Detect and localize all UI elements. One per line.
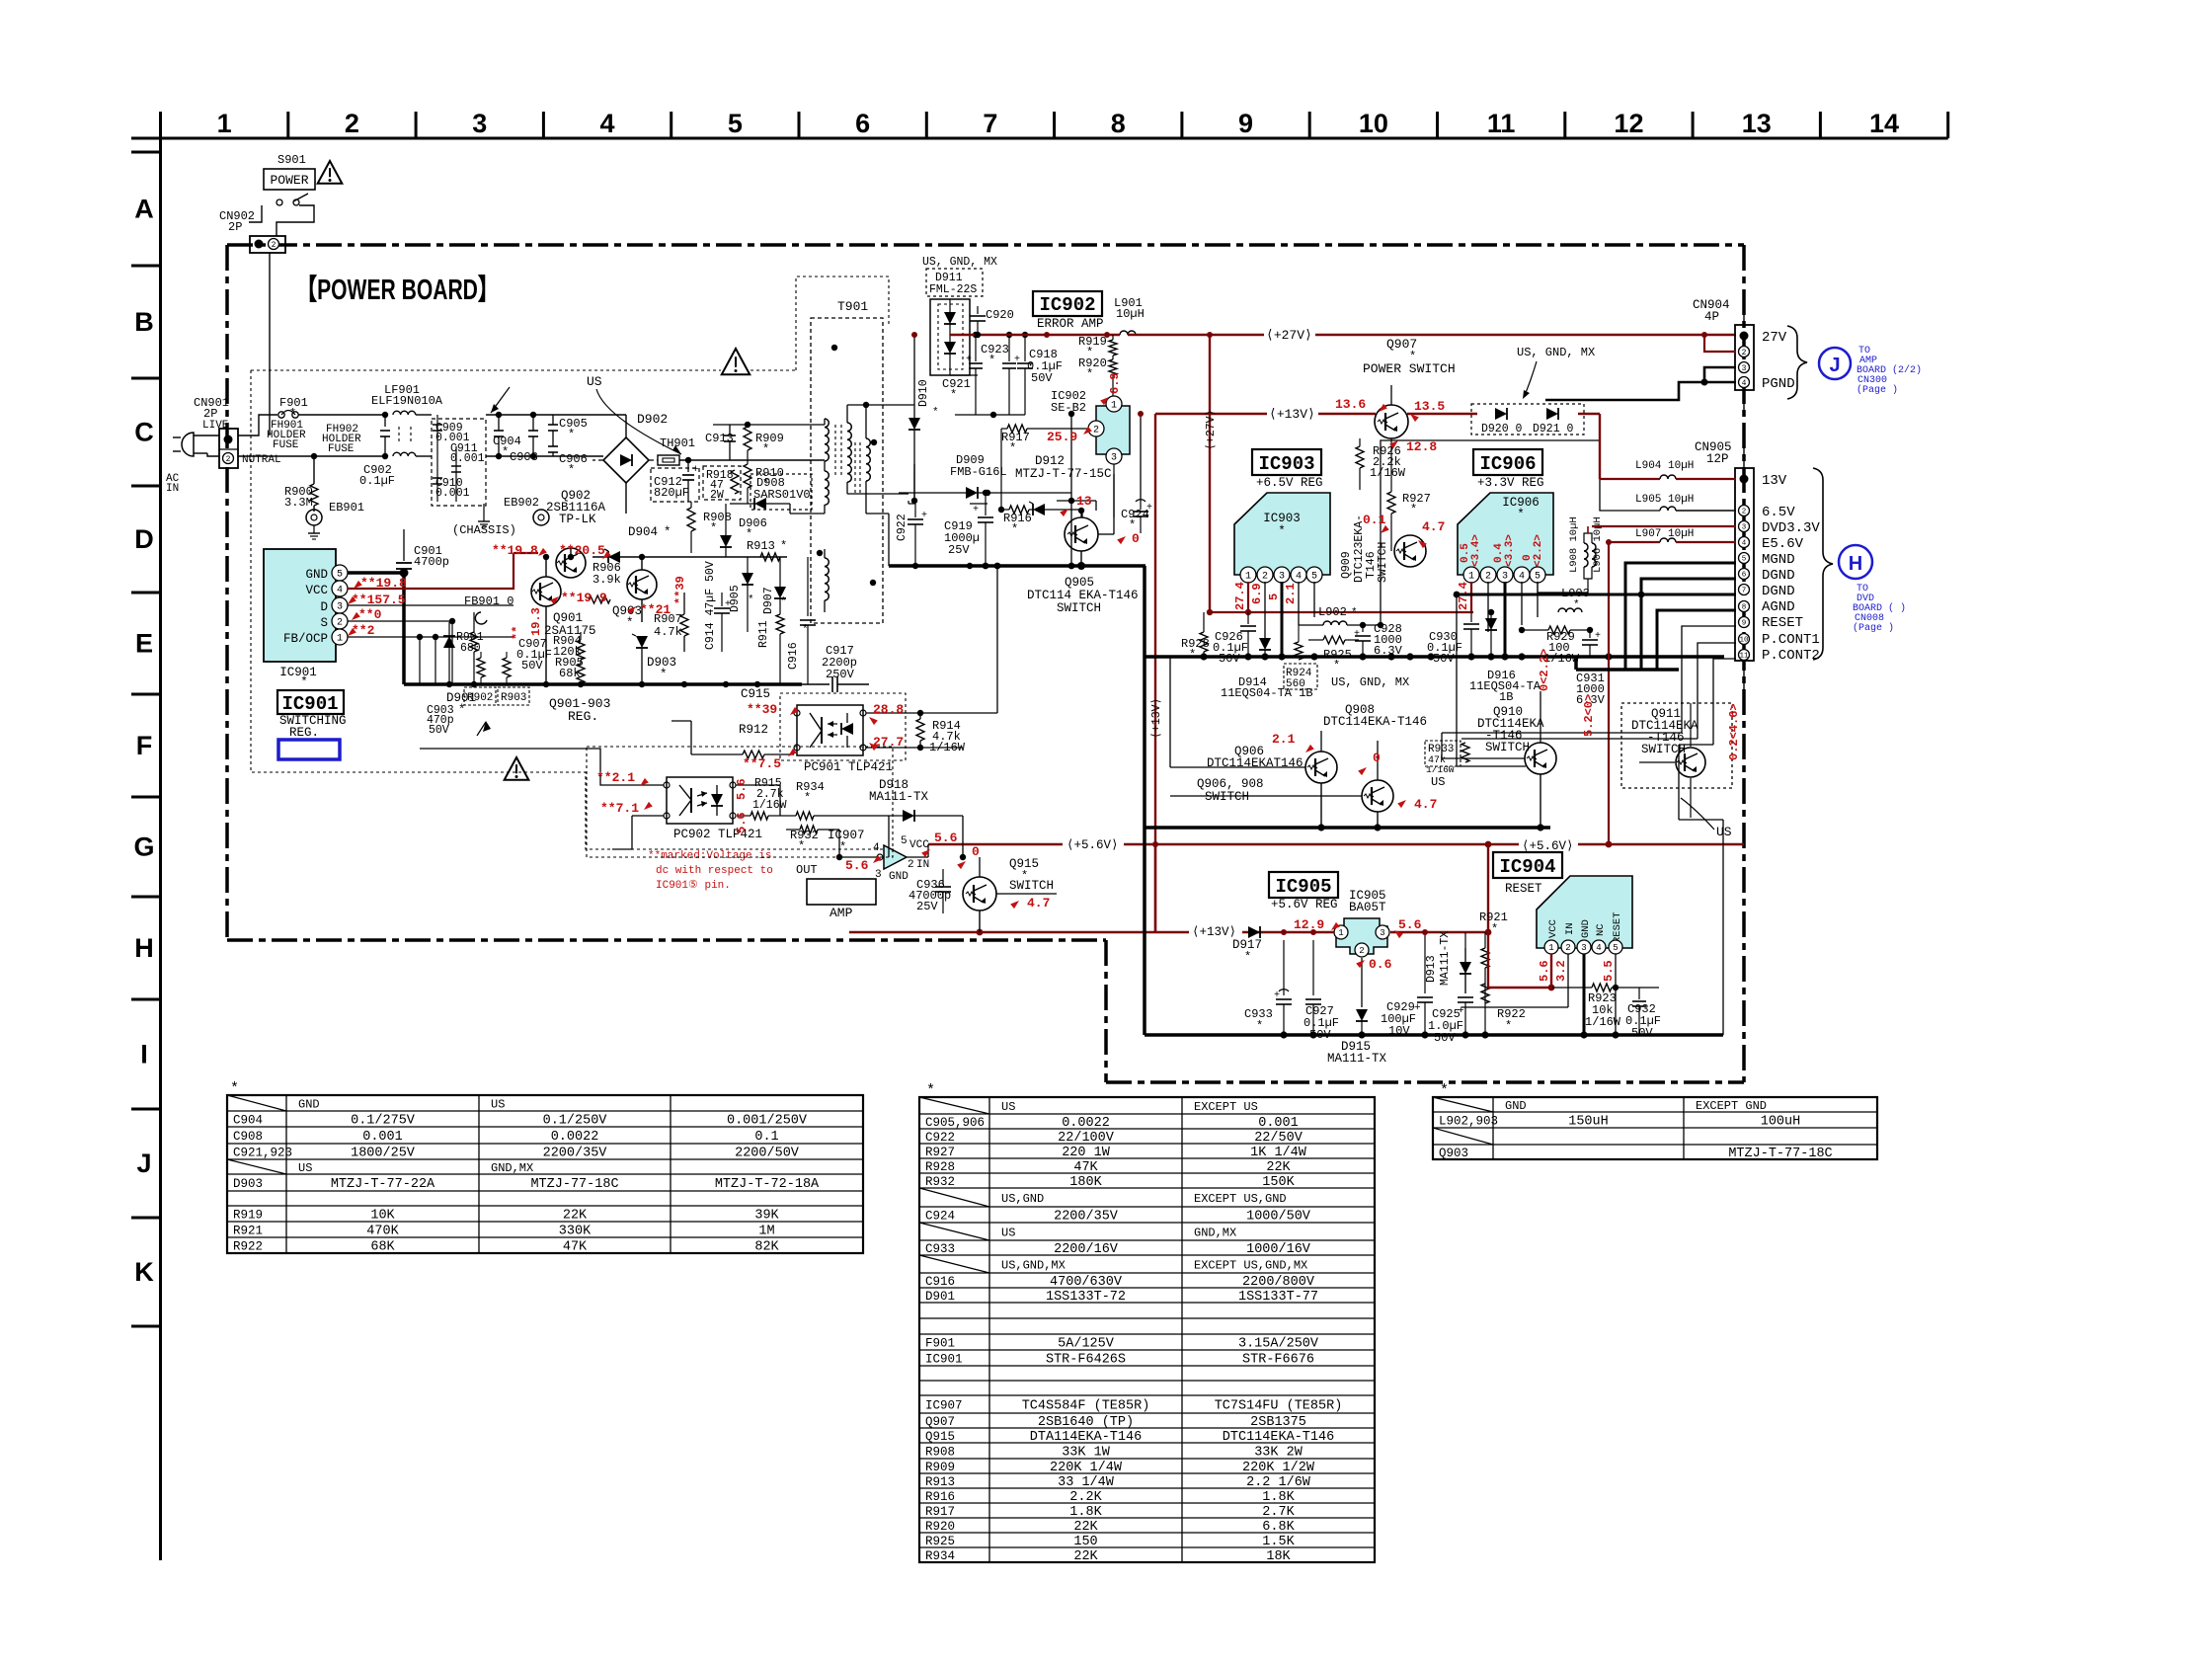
dotted box PC902 area (587, 747, 893, 857)
svg-text:US: US (1716, 825, 1732, 839)
svg-text:150uH: 150uH (1568, 1115, 1609, 1130)
svg-text:50V: 50V (1631, 1026, 1653, 1040)
svg-text:10K: 10K (370, 1209, 395, 1224)
secondary ground bus (thick) (889, 564, 1145, 568)
svg-text:6.9: 6.9 (1108, 372, 1122, 394)
svg-text:0.001/250V: 0.001/250V (727, 1114, 808, 1129)
svg-text:DTC114EKAT146: DTC114EKAT146 (1207, 756, 1303, 770)
svg-text:4: 4 (873, 842, 880, 854)
svg-text:+: + (1146, 503, 1152, 514)
svg-text:2: 2 (1093, 426, 1099, 436)
svg-text:D903: D903 (233, 1177, 263, 1191)
IC903 pin wires (1247, 582, 1249, 612)
svg-text:2.1: 2.1 (1272, 732, 1296, 747)
svg-text:5: 5 (1535, 572, 1540, 583)
svg-text:8: 8 (1111, 109, 1126, 138)
svg-text:330K: 330K (559, 1225, 592, 1239)
diode D913 MA111-TX (1425, 931, 1471, 993)
capacitor C913 (705, 425, 748, 460)
svg-text:19.3: 19.3 (529, 607, 543, 636)
svg-text:TC7S14FU (TE85R): TC7S14FU (TE85R) (1215, 1399, 1343, 1414)
IC905 label box +5.6V REG (1269, 872, 1386, 914)
US GND MX pointer (1517, 346, 1595, 399)
svg-text:IC906: IC906 (1479, 453, 1536, 475)
svg-text:R922: R922 (233, 1240, 263, 1254)
svg-text:5A/125V: 5A/125V (1058, 1337, 1115, 1352)
svg-text:NC: NC (1595, 923, 1607, 936)
svg-text:3.9k: 3.9k (592, 573, 621, 587)
svg-text:Q909: Q909 (1340, 551, 1353, 579)
svg-text:MTZJ-T-77-22A: MTZJ-T-77-22A (331, 1177, 435, 1192)
svg-text:14: 14 (1869, 109, 1899, 138)
svg-text:0.1/250V: 0.1/250V (543, 1114, 608, 1129)
wire secondary to C922/C919 (908, 501, 909, 504)
svg-text:1.5K: 1.5K (1262, 1535, 1295, 1549)
thermistor TH901 (658, 436, 825, 465)
svg-text:R916: R916 (925, 1490, 955, 1504)
wires under opto (838, 830, 840, 857)
svg-text:SWITCH: SWITCH (1009, 879, 1054, 893)
svg-text:50V: 50V (1434, 1031, 1456, 1045)
capacitor C902 0.1uF (359, 412, 395, 488)
svg-text:+5.6V REG: +5.6V REG (1271, 898, 1338, 911)
svg-text:12: 12 (1614, 109, 1643, 138)
connector CN901 2P (194, 396, 281, 468)
arrow to filter box (491, 387, 510, 413)
svg-text:1: 1 (1111, 401, 1117, 412)
dashed box C909 C911 C910 (432, 415, 486, 506)
diode D910 (908, 332, 939, 501)
svg-text:IC901: IC901 (279, 666, 317, 679)
svg-text:5.6: 5.6 (1398, 917, 1422, 932)
svg-text:C916: C916 (925, 1275, 955, 1289)
svg-text:2: 2 (345, 109, 359, 138)
svg-text:5.2<0>: 5.2<0> (1582, 694, 1596, 737)
svg-text:D913: D913 (1425, 955, 1438, 983)
svg-text:3: 3 (1380, 928, 1384, 938)
svg-text:US: US (1001, 1227, 1015, 1240)
svg-text:ERROR AMP: ERROR AMP (1037, 317, 1104, 331)
svg-text:5: 5 (337, 570, 343, 581)
transistor Q906 (1197, 745, 1337, 804)
inductor L901 10uH (1114, 296, 1145, 335)
warning triangle center (722, 349, 750, 374)
svg-text:VCC: VCC (1547, 919, 1559, 938)
svg-text:18K: 18K (1266, 1549, 1291, 1564)
secondary main bus (thick) (1145, 655, 1724, 659)
resistor R913 (747, 539, 787, 561)
IC905 output wire (maroon) (1390, 931, 1488, 933)
svg-text:**21: **21 (640, 602, 671, 617)
wire Q905 collector (1080, 551, 1082, 566)
capacitor C917 2200p 250V (802, 644, 869, 692)
warning triangle near S901 (318, 161, 343, 184)
svg-text:5: 5 (901, 835, 908, 847)
svg-text:C916: C916 (787, 642, 800, 670)
svg-text:L902: L902 (1318, 605, 1347, 619)
dotted resistors R902 R903 (464, 652, 529, 736)
GND label and C936 (889, 869, 951, 913)
svg-text:0.0022: 0.0022 (551, 1130, 599, 1145)
svg-text:25V: 25V (948, 543, 970, 557)
resistor R918 47 2W (dashed) (703, 466, 741, 502)
svg-text:DTC114EKA-T146: DTC114EKA-T146 (1223, 1430, 1334, 1445)
diode D901 (443, 622, 476, 717)
wire CN902 to CN901 live (269, 253, 271, 436)
resistor R925 (1308, 636, 1359, 673)
svg-text:0.001: 0.001 (435, 487, 470, 500)
svg-text:5: 5 (1267, 594, 1281, 600)
svg-text:28.8: 28.8 (873, 702, 904, 717)
svg-text:50V: 50V (521, 659, 543, 673)
IC902 SE-B2 (cyan) (1051, 389, 1130, 517)
svg-text:2P: 2P (203, 407, 217, 421)
svg-text:C933: C933 (925, 1242, 955, 1256)
dotted primary boundary (251, 370, 894, 849)
svg-text:12P: 12P (1706, 452, 1729, 466)
svg-text:R902: R902 (467, 692, 493, 704)
resistor R908 (687, 502, 732, 553)
svg-text:FUSE: FUSE (328, 443, 355, 455)
resistor R905 68k (555, 656, 585, 684)
svg-text:220K 1/2W: 220K 1/2W (1242, 1461, 1315, 1475)
svg-text:0.1µF: 0.1µF (359, 474, 395, 488)
IC906 body (cyan) (1458, 493, 1553, 583)
svg-text:4: 4 (1596, 943, 1601, 953)
svg-text:IN: IN (166, 483, 179, 495)
svg-text:22K: 22K (1073, 1549, 1098, 1564)
svg-text:4P: 4P (1704, 310, 1719, 324)
capacitor C920 (970, 306, 1014, 335)
svg-text:D: D (134, 524, 154, 554)
resistor R907 4.7k (654, 593, 688, 652)
svg-text:POWER SWITCH: POWER SWITCH (1363, 361, 1456, 376)
svg-text:D910: D910 (917, 379, 930, 407)
wire fuse to filter (298, 414, 388, 416)
svg-text:2.2K: 2.2K (1069, 1490, 1102, 1505)
svg-text:*: * (1011, 522, 1018, 536)
svg-text:SWITCH: SWITCH (1377, 542, 1389, 583)
svg-text:4.7: 4.7 (1414, 797, 1437, 812)
diode D916 11EQS04-TA 1B (1469, 609, 1541, 704)
label Q902 2SB1116A TP-LK (546, 489, 606, 526)
svg-text:13: 13 (1742, 109, 1772, 138)
base drive wires (1170, 766, 1305, 768)
svg-text:+: + (966, 355, 972, 365)
svg-text:7: 7 (983, 109, 997, 138)
svg-text:RESET: RESET (1762, 615, 1803, 631)
svg-text:*: * (780, 539, 787, 553)
svg-text:1/16W: 1/16W (1370, 466, 1406, 480)
capacitor C904 (493, 412, 521, 459)
wire T901 secondary to rectifiers (866, 404, 914, 406)
svg-text:0<2.2>: 0<2.2> (1538, 649, 1551, 691)
capacitor C931 1000 6.3V (1576, 630, 1606, 707)
resistor R909 (744, 425, 784, 464)
svg-text:EXCEPT US,GND: EXCEPT US,GND (1194, 1192, 1287, 1206)
svg-text:DGND: DGND (1762, 568, 1795, 584)
svg-text:0.1: 0.1 (754, 1130, 778, 1145)
svg-text:*: * (1491, 922, 1498, 936)
svg-text:47K: 47K (1073, 1160, 1098, 1175)
svg-text:*: * (1333, 659, 1340, 673)
svg-text:P.CONT2: P.CONT2 (1762, 648, 1820, 664)
svg-text:(Page ): (Page ) (1853, 622, 1894, 634)
svg-text:GND: GND (305, 568, 328, 582)
svg-text:DGND: DGND (1762, 584, 1795, 599)
svg-text:150: 150 (1073, 1535, 1097, 1549)
svg-text:3: 3 (1742, 524, 1747, 532)
svg-text:3: 3 (337, 602, 343, 613)
IC902 label box ERROR AMP (1033, 291, 1104, 331)
svg-text:1800/25V: 1800/25V (351, 1147, 416, 1161)
svg-text:22K: 22K (1266, 1160, 1291, 1175)
svg-text:0.6: 0.6 (1369, 957, 1392, 972)
svg-text:AMP: AMP (829, 906, 853, 920)
svg-text:R925: R925 (925, 1535, 955, 1548)
svg-text:+3.3V REG: +3.3V REG (1477, 476, 1544, 490)
resistor R904 120k (553, 632, 585, 664)
resistor R900 3.3M (284, 453, 318, 510)
svg-text:*: * (626, 616, 634, 630)
svg-text:IC901⑤ pin.: IC901⑤ pin. (656, 879, 731, 892)
svg-text:Q915: Q915 (925, 1430, 955, 1444)
capacitor C916 (787, 557, 816, 684)
resistor R926 2.2k 1/16W (1356, 438, 1406, 490)
resistor R923 10k 1/16W (1552, 984, 1659, 1029)
wire IC901 pins (348, 604, 513, 606)
svg-text:50V: 50V (1219, 652, 1240, 666)
svg-text:*: * (932, 407, 939, 419)
svg-text:IC905: IC905 (1275, 876, 1331, 898)
CN904 PGND wires (thick) (1704, 367, 1736, 382)
svg-text:EB902: EB902 (504, 496, 539, 510)
svg-text:D902: D902 (637, 412, 668, 427)
svg-text:C914 47µF 50V: C914 47µF 50V (704, 561, 717, 650)
svg-text:TH901: TH901 (660, 436, 695, 450)
resistor R917 (998, 425, 1088, 513)
resistor R934 (780, 780, 889, 820)
fuse F901 (267, 396, 361, 455)
svg-text:R913: R913 (747, 539, 775, 553)
parts table middle (US / EXCEPT US variants) (919, 1082, 1375, 1564)
capacitor C919 1000 25V (944, 490, 993, 570)
svg-text:S: S (320, 616, 328, 630)
svg-text:27.7: 27.7 (873, 735, 904, 750)
svg-text:4: 4 (1296, 572, 1302, 583)
IC901 block (cyan) (264, 549, 348, 689)
diode D906 (720, 504, 767, 557)
live wire to fuse (238, 415, 277, 436)
svg-text:D921 0: D921 0 (1533, 423, 1574, 436)
svg-text:5.6: 5.6 (845, 858, 869, 873)
svg-text:560: 560 (1286, 678, 1305, 690)
svg-text:2200/16V: 2200/16V (1054, 1242, 1119, 1257)
svg-text:R917: R917 (925, 1505, 955, 1519)
svg-text:2.7K: 2.7K (1262, 1505, 1295, 1520)
svg-text:100uH: 100uH (1761, 1115, 1801, 1130)
svg-text:MA111-TX: MA111-TX (869, 790, 929, 804)
connector CN904 4P (1693, 296, 1795, 415)
svg-text:0.0022: 0.0022 (1062, 1116, 1110, 1131)
transistor Q908b (1362, 780, 1393, 812)
svg-text:GND: GND (1580, 919, 1592, 938)
svg-text:PC901 TLP421: PC901 TLP421 (804, 760, 893, 774)
svg-text:27.4: 27.4 (1457, 582, 1470, 610)
svg-text:H: H (1849, 553, 1862, 575)
capacitor C926 0.1uF 50V (1213, 612, 1256, 666)
svg-text:*: * (1256, 1019, 1263, 1033)
brace H to DVD board (1813, 468, 1906, 660)
svg-text:1.8K: 1.8K (1262, 1490, 1295, 1505)
svg-text:0.1: 0.1 (1363, 513, 1386, 527)
power board dash-dot outline (227, 245, 1744, 1082)
transistor Q901 2SA1175 (531, 577, 561, 606)
wire C924 top (1140, 414, 1142, 499)
svg-text:*: * (1009, 441, 1016, 455)
svg-text:11: 11 (1739, 653, 1749, 661)
svg-text:Q907: Q907 (925, 1415, 955, 1429)
svg-text:5.5: 5.5 (1602, 960, 1616, 982)
svg-text:**19.8: **19.8 (360, 576, 407, 591)
svg-text:BA05T: BA05T (1349, 901, 1386, 914)
capacitor C905 (548, 415, 588, 441)
svg-text:EB901: EB901 (329, 501, 364, 515)
svg-text:MTZJ-T-77-18C: MTZJ-T-77-18C (1728, 1147, 1832, 1161)
svg-text:1000/50V: 1000/50V (1246, 1210, 1311, 1225)
svg-text:9: 9 (1742, 620, 1747, 628)
svg-text:250V: 250V (826, 668, 855, 681)
svg-text:TC4S584F (TE85R): TC4S584F (TE85R) (1022, 1399, 1150, 1414)
svg-text:*: * (1517, 508, 1525, 521)
signal wires RESET P.CONT (1682, 626, 1736, 733)
svg-text:4: 4 (600, 109, 615, 138)
svg-text:**: ** (511, 626, 524, 640)
US pointer right (1681, 798, 1732, 839)
svg-text:A: A (134, 195, 154, 224)
brace J to AMP board (1787, 326, 1922, 399)
svg-text:2: 2 (1742, 349, 1747, 357)
svg-text:*: * (660, 668, 668, 681)
svg-text:470K: 470K (366, 1225, 399, 1239)
svg-text:*: * (1573, 599, 1580, 611)
svg-text:EXCEPT US,GND,MX: EXCEPT US,GND,MX (1194, 1259, 1307, 1273)
ferrite FB901 (464, 594, 513, 624)
svg-text:<3.4>: <3.4> (1470, 534, 1482, 567)
op-amp IC907 (cyan triangle) (839, 835, 929, 881)
svg-text:US, GND, MX: US, GND, MX (1331, 675, 1409, 689)
svg-text:AGND: AGND (1762, 599, 1795, 615)
svg-text:2: 2 (1565, 943, 1570, 953)
wires filter to bridge (486, 414, 626, 416)
terminal EB902 and chassis (452, 496, 549, 537)
+13V rail (maroon) (1155, 407, 1600, 422)
svg-text:R933: R933 (1428, 744, 1454, 755)
capacitor C901 4700p (396, 529, 449, 569)
capacitor C928 1000 6.3V (1354, 622, 1403, 658)
DVD3.3V wire (maroon) (1592, 525, 1736, 527)
svg-text:R909: R909 (925, 1461, 955, 1474)
svg-text:FB/OCP: FB/OCP (283, 632, 328, 646)
svg-text:*: * (300, 675, 308, 689)
svg-text:VCC: VCC (909, 839, 929, 851)
svg-text:**19.8: **19.8 (492, 543, 538, 558)
svg-text:H: H (134, 933, 154, 963)
svg-text:13: 13 (1076, 494, 1092, 509)
svg-text:*: * (748, 594, 754, 606)
svg-text:6: 6 (855, 109, 870, 138)
parts table right (L902,903 / Q903 variants) (1433, 1082, 1877, 1161)
svg-text:*: * (839, 840, 846, 854)
svg-text:9: 9 (1238, 109, 1253, 138)
svg-text:180K: 180K (1069, 1175, 1102, 1190)
optocoupler PC902 TLP421 (664, 777, 762, 841)
right signal verticals (1678, 745, 1680, 820)
svg-text:L908 10µH: L908 10µH (1568, 516, 1580, 573)
svg-text:EXCEPT US: EXCEPT US (1194, 1100, 1258, 1114)
resistor R911 (757, 614, 784, 684)
svg-text:68K: 68K (370, 1240, 395, 1255)
IC905 pin2 wire (1361, 958, 1363, 1007)
svg-text:**157.5: **157.5 (352, 593, 406, 607)
svg-text:1.8K: 1.8K (1069, 1505, 1102, 1520)
svg-text:50V: 50V (1433, 652, 1455, 666)
svg-text:IC901: IC901 (281, 693, 338, 715)
svg-text:5.6: 5.6 (934, 831, 958, 845)
transistor Q907 POWER SWITCH (1363, 337, 1456, 438)
svg-text:0.001: 0.001 (1258, 1116, 1299, 1131)
svg-text:L906 10µH: L906 10µH (1592, 516, 1604, 573)
svg-text:4: 4 (1519, 572, 1525, 583)
svg-text:VCC: VCC (305, 584, 328, 597)
svg-text:8: 8 (1742, 604, 1747, 612)
svg-text:*: * (798, 839, 805, 853)
svg-text:POWER: POWER (270, 173, 308, 188)
svg-text:SARS01V0: SARS01V0 (753, 488, 811, 502)
resistor R927 (1387, 438, 1431, 533)
svg-text:US,GND: US,GND (1001, 1192, 1044, 1206)
svg-text:P.CONT1: P.CONT1 (1762, 632, 1820, 648)
IC904 body (cyan) (1537, 876, 1632, 954)
svg-text:*: * (1410, 503, 1417, 516)
svg-text:39K: 39K (754, 1209, 779, 1224)
svg-text:2: 2 (908, 859, 914, 871)
svg-text:FMB-G16L: FMB-G16L (950, 465, 1007, 479)
wire IC901 GND to bus (thick) (348, 571, 404, 575)
svg-text:R928: R928 (925, 1160, 955, 1174)
svg-text:+: + (1595, 631, 1601, 642)
svg-text:STR-F6676: STR-F6676 (1242, 1353, 1314, 1368)
IC905 body (cyan) (1334, 918, 1389, 957)
svg-text:F901: F901 (925, 1337, 955, 1351)
svg-text:6: 6 (1742, 572, 1747, 580)
svg-text:5: 5 (728, 109, 743, 138)
svg-text:F: F (136, 731, 153, 760)
svg-text:TP-LK: TP-LK (559, 513, 596, 526)
capacitor C922 (896, 504, 927, 566)
svg-text:0.1/275V: 0.1/275V (351, 1114, 416, 1129)
maroon 13V riser (1599, 414, 1601, 479)
svg-text:0: 0 (1132, 531, 1140, 546)
red note marked voltage (648, 850, 773, 892)
svg-text:D904: D904 (628, 525, 658, 539)
svg-text:D907: D907 (762, 587, 775, 614)
svg-text:5: 5 (1742, 556, 1747, 564)
resistor R901 680 (456, 612, 484, 684)
resistor R914 4.7k 1/16W (866, 710, 997, 754)
resistor R910 (744, 464, 784, 504)
svg-text:+: + (1414, 1002, 1421, 1014)
